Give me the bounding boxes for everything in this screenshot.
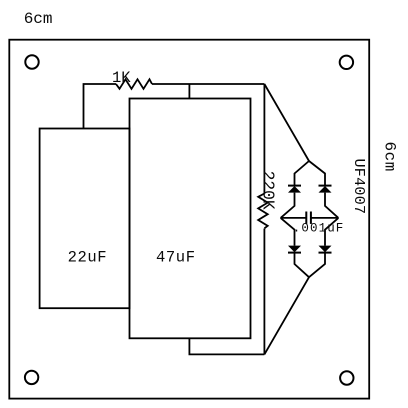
- svg-text:47uF: 47uF: [156, 248, 196, 266]
- wire bridge top-right branch: [309, 161, 325, 186]
- wire right vertical lower: [263, 229, 265, 355]
- svg-text:6cm: 6cm: [380, 142, 398, 172]
- wire diagonal bottom to bridge: [264, 277, 309, 354]
- wire bridge bottom-left branch: [295, 253, 310, 278]
- capacitor C2 body 47uF: [130, 99, 251, 339]
- capacitor C1 body 22uF: [40, 129, 130, 309]
- mounting hole top-left: [25, 55, 38, 68]
- mounting hole top-right: [340, 56, 353, 69]
- wire from R1 to right corner: [152, 83, 264, 85]
- wire bridge bottom-right branch: [309, 253, 325, 278]
- mounting hole bottom-left: [25, 371, 38, 384]
- wire mid rail to D3 anode: [281, 218, 295, 246]
- board outline (6cm x 6cm): [9, 40, 369, 399]
- svg-text:1K: 1K: [112, 69, 131, 87]
- svg-text:6cm: 6cm: [24, 10, 53, 28]
- diode D3 bottom-left: [288, 246, 301, 253]
- wire mid rail to D4 anode: [325, 218, 338, 246]
- wire from C1 top to resistor R1: [84, 84, 117, 129]
- diode D1 top-left: [288, 185, 301, 187]
- mounting hole bottom-right: [340, 371, 353, 384]
- resistor R2 220K zigzag: [258, 194, 268, 229]
- capacitor C3 .001uF plates: [305, 212, 307, 224]
- svg-text:22uF: 22uF: [68, 248, 108, 266]
- wire diagonal top to bridge: [264, 84, 309, 161]
- mid rail right segment: [311, 217, 339, 219]
- wire stub top to C2: [188, 84, 190, 99]
- wire right vertical upper: [263, 84, 265, 194]
- wire D1 cathode to mid rail: [281, 193, 295, 218]
- wire bottom from C2: [189, 338, 264, 354]
- diode D2 top-right: [319, 185, 332, 187]
- diode D4 bottom-right: [319, 246, 332, 253]
- svg-text:.001uF: .001uF: [293, 222, 345, 236]
- mid rail left segment: [281, 217, 307, 219]
- wire bridge top-left branch: [295, 161, 310, 186]
- resistor R1 1K zigzag: [116, 79, 152, 89]
- svg-text:220K: 220K: [259, 171, 278, 210]
- wire D2 cathode to mid rail: [325, 193, 338, 218]
- svg-text:UF4007: UF4007: [350, 159, 367, 215]
